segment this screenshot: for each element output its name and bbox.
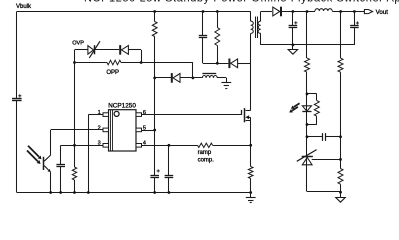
- capacitor bulk Cbulk: [12, 98, 22, 100]
- wire pin1 to ground: [88, 114, 103, 116]
- resistor sense: [248, 167, 253, 179]
- wire OVP right corner: [128, 49, 141, 51]
- resistor ramp comp: [198, 143, 213, 147]
- inductor aux winding: [202, 75, 217, 77]
- resistor upper divider right: [338, 58, 343, 72]
- wire drain vertical: [250, 33, 252, 110]
- capacitor clamp: [202, 10, 205, 13]
- op-amp U1 NCP1250 body: [109, 110, 137, 151]
- resistor lower-left divider: [72, 167, 76, 180]
- diode secondary rectifier: [280, 7, 282, 17]
- wire bottom ground rail: [17, 192, 251, 194]
- node OVP-OPP junction: [140, 61, 143, 64]
- resistor lower divider right: [338, 169, 343, 185]
- svg-text:6: 6: [143, 110, 146, 116]
- wire Vbulk top rail: [17, 11, 251, 13]
- capacitor Vcc: [150, 175, 159, 177]
- wire source vertical: [250, 117, 252, 166]
- wire left vertical rail: [16, 12, 18, 99]
- capacitor output C2: [354, 12, 356, 26]
- arrows LED light: [294, 103, 300, 107]
- inductor output filter: [315, 9, 332, 11]
- capacitor pin3 filter: [56, 164, 65, 166]
- wire Vcc vertical: [154, 37, 156, 176]
- wire secondary top: [261, 11, 272, 13]
- optocoupler phototransistor: [43, 157, 45, 170]
- wire OVP branch: [75, 49, 88, 51]
- zener OVP TVS: [88, 46, 94, 55]
- resistor upper divider left: [305, 58, 310, 72]
- wire aux to ground: [217, 77, 226, 79]
- svg-text:OVP: OVP: [72, 41, 84, 47]
- transformer T1 secondary: [260, 12, 262, 22]
- capacitor output C1: [292, 12, 294, 26]
- wire pin2 FB: [51, 129, 103, 131]
- diode aux Vcc: [171, 73, 173, 83]
- resistor OPP: [107, 60, 121, 65]
- svg-text:comp.: comp.: [198, 158, 215, 164]
- wire TL431 ref: [312, 159, 341, 161]
- wire output rail: [332, 11, 364, 13]
- wire OPP down corner: [192, 63, 194, 78]
- wire gate drive: [142, 114, 242, 116]
- wire upper divider right: [340, 12, 342, 59]
- wire LED branch: [306, 72, 308, 137]
- node Vout arrow: [364, 10, 372, 14]
- wire upper divider left: [306, 12, 308, 59]
- wire clamp bottom: [203, 63, 228, 65]
- svg-text:Vbulk: Vbulk: [16, 4, 32, 10]
- capacitor compensation: [307, 136, 322, 138]
- wire top text clipped row: [84, 0, 399, 5]
- svg-text:OPP: OPP: [106, 70, 119, 76]
- resistor startup Rstartup: [153, 10, 156, 13]
- wire pin3: [61, 145, 103, 147]
- arrows opto light in: [28, 146, 39, 157]
- svg-text:ramp: ramp: [198, 150, 212, 156]
- resistor clamp: [216, 10, 219, 13]
- wire zener to diode: [94, 49, 119, 51]
- node aux diode junction: [192, 77, 195, 80]
- transformer T1 core: [255, 17, 257, 39]
- wire left OVP vertical: [74, 50, 76, 167]
- ground aux winding: [221, 82, 231, 84]
- diode clamp: [228, 59, 230, 69]
- svg-text:2: 2: [98, 125, 101, 131]
- capacitor CS filter: [168, 145, 170, 175]
- resistor LED parallel: [307, 93, 317, 95]
- svg-text:1: 1: [98, 110, 101, 116]
- ground TL431: [340, 192, 342, 197]
- wire pin5 Vcc stub: [142, 130, 155, 132]
- TL431 shunt regulator U2: [306, 137, 308, 157]
- wire right vertical mid: [340, 72, 342, 168]
- svg-text:NCP1250: NCP1250: [108, 103, 136, 110]
- wire aux core line: [202, 73, 216, 75]
- wire TL431 anode: [306, 165, 308, 192]
- svg-text:Vout: Vout: [376, 9, 389, 16]
- ground primary main: [249, 191, 252, 194]
- wire OPP line: [75, 62, 108, 64]
- svg-text:NCP1250 Low Standby Power Offl: NCP1250 Low Standby Power Offline Flybac…: [84, 0, 399, 5]
- wire pin4 CS: [142, 145, 198, 147]
- transformer T1 primary: [250, 12, 252, 22]
- ground secondary: [292, 45, 294, 50]
- wire aux diode line: [155, 77, 172, 79]
- wire secondary ground rail: [261, 44, 355, 46]
- LED optocoupler emit: [302, 106, 311, 111]
- transistor Q1 MOSFET: [241, 110, 243, 115]
- diode OVP series: [119, 45, 121, 55]
